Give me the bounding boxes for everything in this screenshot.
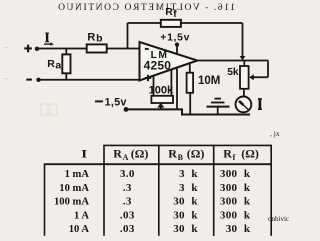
svg-text:30 k: 30 k — [173, 196, 198, 208]
svg-text:b: b — [96, 33, 102, 45]
pin: non-inverting input marker — [145, 75, 151, 81]
wire: 10M top stub — [189, 61, 191, 73]
svg-text:R: R — [47, 58, 55, 70]
svg-text:300 k: 300 k — [220, 182, 251, 194]
svg-text:3.0: 3.0 — [120, 168, 135, 180]
wire: 10M bottom stub — [189, 93, 191, 115]
ghost bleed-through text top — [57, 3, 235, 13]
label: input current I with arrow — [44, 33, 54, 46]
100k wiper arrowhead — [157, 103, 164, 108]
pin: inverting input marker — [145, 48, 149, 50]
label: LM 4250 — [144, 50, 172, 73]
label: Rb — [87, 31, 102, 44]
svg-text:.3: .3 — [123, 182, 132, 194]
table left border — [44, 164, 46, 236]
feedback arrow onto 5k pot — [240, 56, 246, 60]
wire: top feedback wire through Rf — [128, 22, 243, 24]
svg-text:f: f — [233, 153, 236, 162]
wire: +1.5v supply drop to op-amp top edge — [176, 45, 178, 55]
node: -1.5v supply — [95, 97, 128, 112]
table data column Rf — [220, 168, 251, 235]
svg-text:B: B — [178, 153, 184, 162]
node: + input terminal — [24, 45, 39, 53]
svg-text:a: a — [55, 60, 61, 72]
wire: V- supply pin down to rail — [176, 67, 178, 109]
svg-text:.03: .03 — [120, 223, 135, 235]
svg-text:10M: 10M — [198, 75, 220, 87]
table data column RB — [173, 168, 198, 235]
table top border — [104, 144, 271, 146]
resistor Rf — [161, 20, 181, 27]
wire: Ra top stub — [65, 49, 67, 55]
table header text — [81, 147, 259, 162]
node: +1.5v supply — [160, 33, 190, 47]
svg-text:A: A — [123, 153, 129, 162]
svg-text:1 A: 1 A — [74, 210, 89, 221]
resistor 10M — [187, 73, 194, 93]
svg-text:R: R — [165, 6, 173, 18]
label: Rf — [165, 6, 177, 20]
op-amp U1 LM4250 — [140, 42, 198, 81]
ghost bleed-through box shapes left — [41, 104, 57, 115]
wire: top input wire (+ terminal to op-amp inverting input) — [37, 48, 140, 50]
svg-text:3 k: 3 k — [179, 168, 198, 180]
ground — [207, 99, 230, 107]
svg-text:1,5v: 1,5v — [105, 97, 127, 109]
wire: 100k wiper stem — [160, 105, 162, 110]
wire: 5k pot top stub — [243, 61, 245, 67]
svg-text:300 k: 300 k — [220, 196, 251, 208]
svg-text:(Ω): (Ω) — [131, 147, 149, 161]
wire: feedback left vertical riser — [127, 23, 129, 49]
resistor Ra — [62, 54, 70, 73]
table grid lines — [45, 145, 272, 236]
svg-text:R: R — [113, 147, 122, 161]
svg-text:(Ω): (Ω) — [241, 147, 259, 161]
wire: 100k pot right lead — [170, 69, 172, 96]
table vertical 2 — [158, 145, 160, 236]
table data column I — [54, 169, 89, 235]
svg-text:.3: .3 — [123, 196, 132, 208]
table vertical 3 — [213, 145, 215, 236]
wire: feedback right vertical drop to output node — [242, 23, 244, 57]
svg-text:R: R — [223, 147, 232, 161]
wire: op-amp output wire — [197, 60, 268, 62]
svg-text:10 mA: 10 mA — [59, 183, 89, 194]
svg-text:3 k: 3 k — [179, 182, 198, 194]
svg-text:116. - VOLTIMETRO CONTINUO: 116. - VOLTIMETRO CONTINUO — [57, 3, 235, 13]
svg-text:I: I — [81, 147, 87, 160]
svg-text:(Ω): (Ω) — [187, 147, 205, 161]
svg-text:→: → — [2, 44, 9, 51]
svg-text:300 k: 300 k — [220, 168, 251, 180]
table vertical 1 — [103, 145, 105, 236]
label: Ra — [47, 58, 61, 72]
svg-text:100k: 100k — [149, 85, 174, 97]
label: meter current I — [259, 99, 262, 109]
svg-text:, jx: , jx — [270, 129, 280, 138]
svg-text:100 mA: 100 mA — [54, 197, 89, 208]
table header underline — [45, 163, 272, 165]
table vertical 4 — [270, 145, 272, 236]
svg-text:+1,5v: +1,5v — [160, 33, 190, 44]
svg-text:R: R — [87, 31, 95, 43]
svg-text:30 k: 30 k — [173, 209, 198, 221]
svg-text:30 k: 30 k — [173, 223, 198, 235]
potentiometer 100k (offset null) — [151, 96, 173, 103]
svg-text:10 A: 10 A — [69, 224, 90, 235]
table data column RA — [120, 168, 135, 235]
svg-text:→: → — [2, 75, 9, 82]
node: - input terminal — [26, 78, 40, 82]
wire: -1.5v rail and bottom return wire — [126, 109, 250, 114]
svg-text:1 mA: 1 mA — [65, 169, 90, 180]
wire: ground stem — [217, 107, 219, 115]
meter M1 (current meter) — [236, 97, 252, 113]
svg-text:5k: 5k — [227, 67, 239, 78]
wire: bottom input wire (- terminal to op-amp non-inverting input) — [39, 79, 140, 81]
svg-text:4250: 4250 — [144, 58, 172, 72]
svg-text:300 k: 300 k — [220, 209, 251, 221]
wire: 100k pot left lead — [153, 76, 155, 96]
wire: 5k pot to meter stub — [243, 89, 245, 97]
svg-text:.03: .03 — [120, 209, 135, 221]
svg-text:30 k: 30 k — [226, 223, 251, 235]
wire: wiper arm horizontal — [252, 76, 269, 78]
wire: right vertical to wiper — [267, 61, 269, 78]
5k wiper arrowhead — [249, 74, 254, 80]
resistor Rb — [87, 44, 107, 52]
potentiometer 5k — [240, 66, 249, 89]
wire: Ra bottom stub — [65, 73, 67, 80]
svg-text:R: R — [168, 147, 177, 161]
